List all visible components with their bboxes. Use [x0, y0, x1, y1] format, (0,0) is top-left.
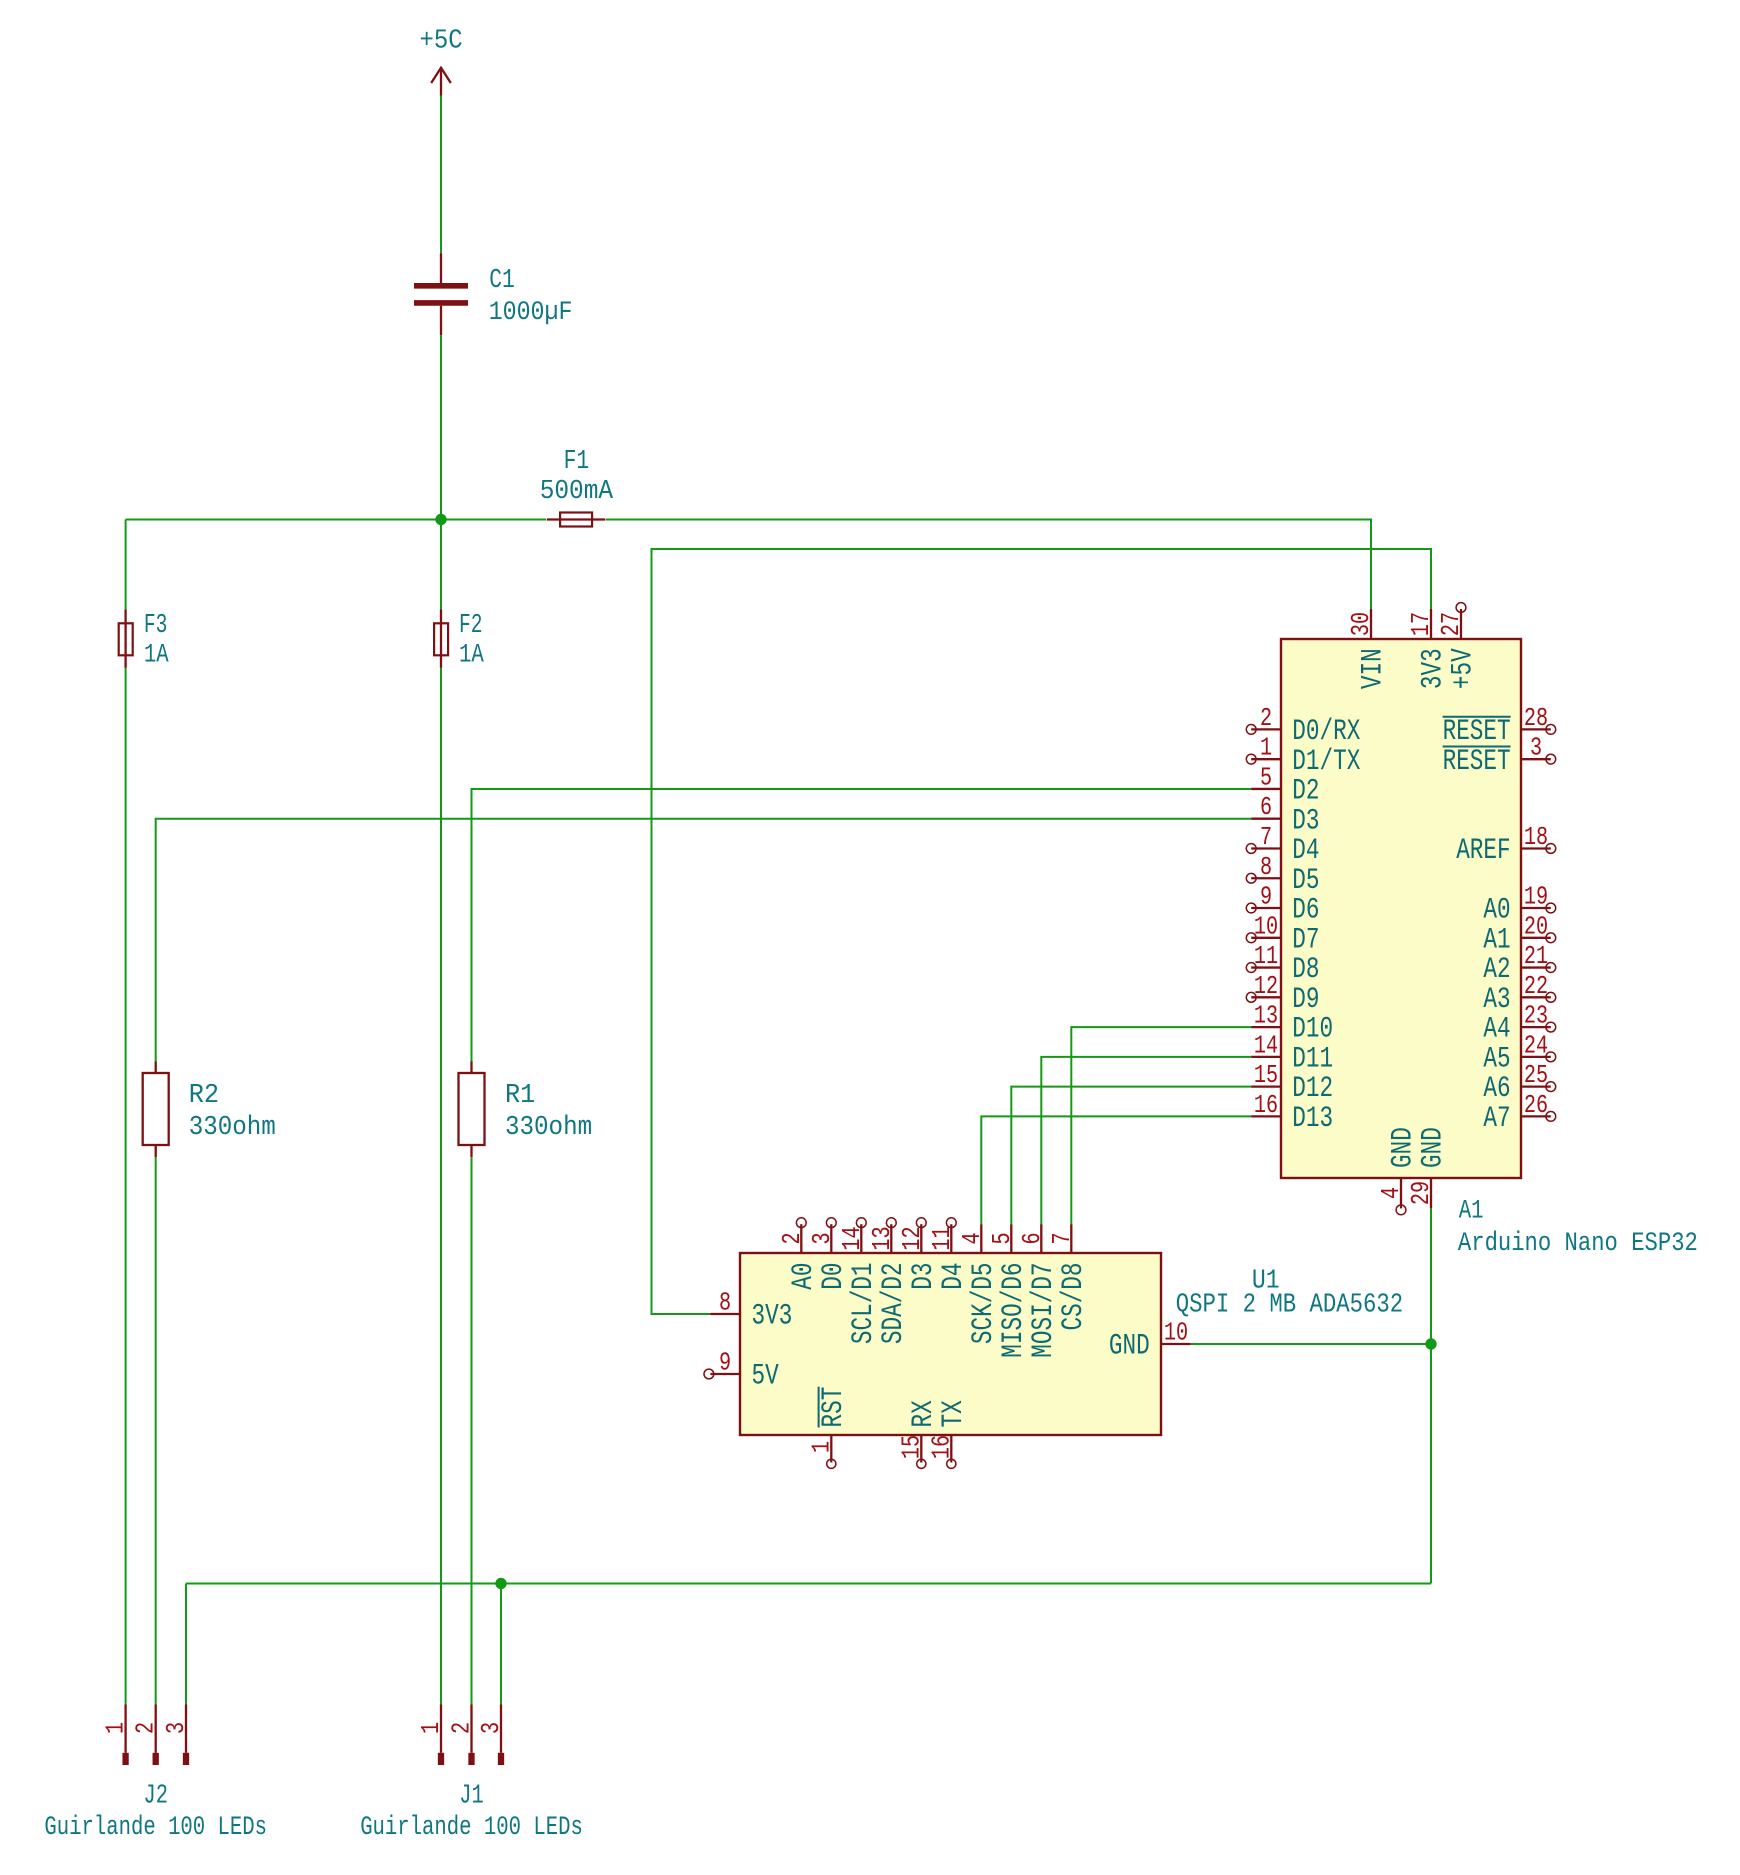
svg-text:A0: A0	[786, 1262, 820, 1289]
U1 pin 5 MISO/D6	[988, 1224, 1030, 1358]
svg-text:13: 13	[1254, 1001, 1278, 1030]
svg-text:10: 10	[1164, 1318, 1188, 1347]
svg-text:20: 20	[1524, 912, 1548, 941]
svg-text:23: 23	[1524, 1001, 1548, 1030]
svg-text:GND: GND	[1416, 1127, 1450, 1168]
svg-text:F1: F1	[564, 447, 590, 477]
svg-text:330ohm: 330ohm	[189, 1112, 276, 1143]
svg-text:GND: GND	[1386, 1127, 1420, 1168]
svg-text:15: 15	[1254, 1061, 1278, 1090]
U1 pin 1 RST	[807, 1387, 850, 1469]
U1 pin 8 3V3	[710, 1288, 792, 1332]
wire +5C to C1	[440, 96, 442, 254]
svg-text:Arduino Nano ESP32: Arduino Nano ESP32	[1458, 1228, 1698, 1259]
svg-text:11: 11	[1254, 942, 1278, 971]
svg-text:4: 4	[958, 1232, 987, 1244]
wire J2 pin 3 riser	[185, 1584, 187, 1705]
A1 pin 19 A0	[1483, 882, 1555, 926]
A1 pin 26 A7	[1483, 1091, 1555, 1135]
svg-text:27: 27	[1437, 612, 1466, 636]
resistor R1	[459, 1061, 485, 1157]
svg-text:SCL/D1: SCL/D1	[846, 1263, 880, 1345]
U1 pin 2 A0	[778, 1218, 820, 1290]
svg-text:RESET: RESET	[1443, 744, 1511, 778]
A1 pin 4 GND	[1377, 1127, 1420, 1215]
svg-text:5: 5	[1260, 763, 1272, 792]
svg-text:8: 8	[719, 1288, 731, 1317]
svg-text:1: 1	[417, 1722, 446, 1734]
wire A1 D11 to U1 MOSI/D7	[1041, 1057, 1251, 1224]
svg-text:+5C: +5C	[420, 25, 463, 56]
A1 pin 9 D6	[1246, 882, 1319, 926]
A1 pin 3 RESET	[1443, 734, 1556, 778]
svg-text:5: 5	[988, 1232, 1017, 1244]
connector J2	[0, 0, 1, 1]
svg-text:24: 24	[1524, 1031, 1548, 1060]
svg-text:16: 16	[1254, 1091, 1278, 1120]
svg-text:D6: D6	[1292, 893, 1319, 927]
fuse F3	[119, 610, 133, 668]
svg-text:29: 29	[1407, 1181, 1436, 1205]
svg-text:D7: D7	[1292, 923, 1319, 957]
wire A1 D3 to R2	[156, 819, 1252, 1061]
svg-text:16: 16	[927, 1435, 956, 1459]
svg-text:A3: A3	[1483, 982, 1510, 1016]
svg-text:J2: J2	[143, 1781, 167, 1812]
svg-text:D0: D0	[816, 1262, 850, 1289]
A1 pin 13 D10	[1251, 1001, 1333, 1045]
svg-text:R2: R2	[189, 1079, 219, 1110]
svg-text:GND: GND	[1109, 1329, 1150, 1363]
svg-text:30: 30	[1347, 612, 1376, 636]
svg-text:18: 18	[1524, 823, 1548, 852]
A1 pin 11 D8	[1246, 942, 1319, 986]
svg-text:8: 8	[1260, 853, 1272, 882]
A1 pin 18 AREF	[1456, 823, 1556, 867]
svg-text:10: 10	[1254, 912, 1278, 941]
A1 pin 5 D2	[1251, 763, 1319, 807]
svg-text:QSPI 2 MB ADA5632: QSPI 2 MB ADA5632	[1176, 1290, 1403, 1321]
fuse F1	[547, 513, 605, 527]
A1 pin 27 +5V	[1437, 603, 1480, 690]
svg-text:Guirlande 100 LEDs: Guirlande 100 LEDs	[360, 1812, 583, 1842]
U1 pin 14 SCL/D1	[838, 1218, 880, 1344]
svg-text:A1: A1	[1483, 923, 1510, 957]
svg-text:TX: TX	[936, 1400, 970, 1427]
A1 pin 25 A6	[1483, 1061, 1555, 1105]
svg-text:A2: A2	[1483, 953, 1510, 987]
svg-text:J1: J1	[459, 1781, 483, 1812]
svg-text:C1: C1	[489, 266, 515, 296]
J2 pin 1	[101, 1705, 130, 1766]
junction GND A1/U1	[1425, 1338, 1436, 1349]
U1 pin 4 SCK/D5	[958, 1224, 1000, 1344]
A1 pin 28 RESET	[1443, 704, 1556, 748]
svg-text:D10: D10	[1292, 1012, 1333, 1046]
svg-text:21: 21	[1524, 942, 1548, 971]
wire rail corner down to F3	[125, 520, 127, 610]
svg-text:13: 13	[868, 1226, 897, 1250]
A1 pin 20 A1	[1483, 912, 1555, 956]
svg-text:28: 28	[1524, 704, 1548, 733]
svg-text:12: 12	[1254, 972, 1278, 1001]
U1 pin 16 TX	[927, 1400, 970, 1468]
svg-text:7: 7	[1048, 1232, 1077, 1244]
svg-text:4: 4	[1377, 1187, 1406, 1199]
svg-text:12: 12	[898, 1226, 927, 1250]
svg-text:3V3: 3V3	[1416, 648, 1450, 689]
svg-text:2: 2	[1260, 704, 1272, 733]
svg-text:1: 1	[1260, 734, 1272, 763]
J2 pin 2	[132, 1705, 161, 1766]
svg-text:14: 14	[838, 1226, 867, 1250]
wire U1 GND to junction	[1191, 1343, 1431, 1345]
A1 pin 2 D0/RX	[1246, 704, 1360, 748]
svg-text:9: 9	[1260, 882, 1272, 911]
svg-text:14: 14	[1254, 1031, 1278, 1060]
svg-text:5V: 5V	[752, 1359, 779, 1393]
svg-text:MISO/D6: MISO/D6	[996, 1263, 1030, 1358]
svg-text:6: 6	[1018, 1232, 1047, 1244]
resistor R2	[143, 1061, 169, 1157]
svg-text:A4: A4	[1483, 1012, 1510, 1046]
svg-text:CS/D8: CS/D8	[1056, 1263, 1090, 1331]
svg-text:1A: 1A	[144, 640, 169, 670]
svg-text:1000µF: 1000µF	[489, 296, 573, 327]
IC A1 Arduino Nano ESP32 body	[1281, 639, 1521, 1178]
A1 pin 22 A3	[1483, 972, 1555, 1016]
svg-text:17: 17	[1407, 612, 1436, 636]
svg-text:A1: A1	[1459, 1196, 1484, 1226]
junction main rail at F2 column	[435, 514, 446, 525]
svg-text:3V3: 3V3	[752, 1299, 793, 1333]
svg-text:+5V: +5V	[1446, 648, 1480, 689]
wire C1 to main junction	[440, 335, 442, 519]
J1 pin 3	[477, 1705, 506, 1766]
A1 pin 29 GND	[1407, 1127, 1450, 1208]
svg-text:2: 2	[447, 1722, 476, 1734]
svg-text:500mA: 500mA	[540, 475, 614, 507]
svg-text:A7: A7	[1483, 1101, 1510, 1135]
svg-text:D5: D5	[1292, 863, 1319, 897]
svg-text:9: 9	[719, 1348, 731, 1377]
A1 pin 10 D7	[1246, 912, 1319, 956]
U1 pin 3 D0	[808, 1218, 850, 1290]
svg-text:D3: D3	[1292, 804, 1319, 838]
svg-text:D11: D11	[1292, 1042, 1333, 1076]
U1 pin 15 RX	[897, 1400, 940, 1468]
wire F2 to J1 pin 1	[440, 668, 442, 1705]
wire U1 3V3 to A1 3V3 pin 17	[652, 549, 1432, 1314]
wire A1 GND pin 29 down	[1430, 1208, 1432, 1344]
svg-text:7: 7	[1260, 823, 1272, 852]
svg-text:F2: F2	[459, 610, 482, 641]
svg-text:15: 15	[897, 1435, 926, 1459]
wire ground rail	[186, 1583, 1431, 1585]
wire F1 to A1 VIN pin 30	[606, 520, 1371, 610]
svg-text:26: 26	[1524, 1091, 1548, 1120]
J2 pin 3	[162, 1705, 191, 1766]
svg-text:VIN: VIN	[1356, 648, 1390, 689]
svg-text:3: 3	[162, 1722, 191, 1734]
wire R2 to J2 pin 2	[155, 1157, 157, 1704]
U1 pin 6 MOSI/D7	[1018, 1224, 1060, 1358]
U1 pin 12 D3	[898, 1218, 940, 1290]
svg-text:3: 3	[477, 1722, 506, 1734]
svg-text:2: 2	[132, 1722, 161, 1734]
svg-text:A0: A0	[1483, 893, 1510, 927]
A1 pin 15 D12	[1251, 1061, 1333, 1105]
svg-text:3: 3	[808, 1232, 837, 1244]
svg-text:MOSI/D7: MOSI/D7	[1026, 1263, 1060, 1358]
J1 pin 2	[447, 1705, 476, 1766]
svg-text:330ohm: 330ohm	[505, 1112, 592, 1143]
svg-text:AREF: AREF	[1456, 833, 1510, 867]
svg-text:D13: D13	[1292, 1101, 1333, 1135]
svg-text:19: 19	[1524, 882, 1548, 911]
svg-text:D3: D3	[906, 1262, 940, 1289]
U1 pin 11 D4	[928, 1218, 970, 1290]
svg-text:D1/TX: D1/TX	[1292, 744, 1360, 778]
svg-text:22: 22	[1524, 972, 1548, 1001]
wire A1 D12 to U1 MISO/D6	[1011, 1087, 1251, 1225]
A1 pin 8 D5	[1246, 853, 1319, 897]
wire R1 to J1 pin 2	[471, 1157, 473, 1704]
capacitor C1	[414, 253, 468, 335]
svg-text:RX: RX	[906, 1400, 940, 1427]
svg-text:SCK/D5: SCK/D5	[966, 1263, 1000, 1345]
svg-text:D8: D8	[1292, 953, 1319, 987]
A1 pin 24 A5	[1483, 1031, 1555, 1075]
A1 pin 23 A4	[1483, 1001, 1555, 1045]
wire junction to F2	[440, 520, 442, 610]
A1 pin 12 D9	[1246, 972, 1319, 1016]
wire A1 D2 to R1	[472, 789, 1252, 1061]
A1 pin 17 3V3	[1407, 609, 1450, 689]
svg-text:D0/RX: D0/RX	[1292, 714, 1360, 748]
junction ground rail at J1 pin 3	[495, 1578, 506, 1589]
svg-text:F3: F3	[144, 610, 167, 641]
U1 pin 13 SDA/D2	[868, 1218, 910, 1344]
svg-text:1: 1	[807, 1441, 836, 1453]
U1 pin 7 CS/D8	[1048, 1224, 1090, 1330]
svg-text:A6: A6	[1483, 1072, 1510, 1106]
wire J1 pin 3 riser	[500, 1584, 502, 1705]
svg-text:R1: R1	[505, 1079, 535, 1110]
svg-text:Guirlande 100 LEDs: Guirlande 100 LEDs	[44, 1812, 267, 1842]
wire A1 D10 to U1 CS/D8	[1071, 1027, 1251, 1224]
wire F3 to J2 pin 1	[125, 668, 127, 1705]
A1 pin 30 VIN	[1347, 609, 1390, 689]
svg-text:SDA/D2: SDA/D2	[876, 1263, 910, 1345]
A1 pin 21 A2	[1483, 942, 1555, 986]
svg-text:D2: D2	[1292, 774, 1319, 808]
svg-text:A5: A5	[1483, 1042, 1510, 1076]
svg-text:D12: D12	[1292, 1072, 1333, 1106]
svg-text:D9: D9	[1292, 982, 1319, 1016]
A1 pin 14 D11	[1251, 1031, 1333, 1075]
A1 pin 6 D3	[1251, 793, 1319, 837]
svg-text:RST: RST	[816, 1387, 850, 1428]
A1 pin 7 D4	[1246, 823, 1319, 867]
svg-text:3: 3	[1530, 734, 1542, 763]
svg-text:D4: D4	[936, 1262, 970, 1289]
U1 pin 10 GND	[1109, 1318, 1191, 1362]
svg-text:1: 1	[101, 1722, 130, 1734]
svg-text:1A: 1A	[459, 640, 484, 670]
svg-text:11: 11	[928, 1226, 957, 1250]
J1 pin 1	[417, 1705, 446, 1766]
svg-text:RESET: RESET	[1443, 714, 1511, 748]
svg-text:6: 6	[1260, 793, 1272, 822]
fuse F2	[434, 610, 448, 668]
A1 pin 16 D13	[1251, 1091, 1333, 1135]
svg-text:D4: D4	[1292, 833, 1319, 867]
wire A1 D13 to U1 SCK/D5	[981, 1116, 1251, 1224]
U1 pin 9 5V	[704, 1348, 779, 1392]
IC U1 QSPI 2 MB ADA5632 body	[740, 1253, 1161, 1435]
A1 pin 1 D1/TX	[1246, 734, 1360, 778]
power symbol +5C	[431, 68, 451, 96]
svg-text:2: 2	[778, 1232, 807, 1244]
wire GND junction down to ground rail	[1430, 1344, 1432, 1584]
wire main rail left segment	[126, 519, 547, 521]
svg-text:25: 25	[1524, 1061, 1548, 1090]
connector J1	[0, 0, 1, 1]
